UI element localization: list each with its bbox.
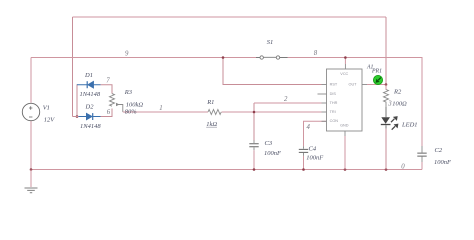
node junction LED ground bbox=[385, 168, 388, 171]
pin stub GND bbox=[344, 131, 346, 136]
wire V1 bottom lead bbox=[30, 121, 32, 170]
IC 555 timer box bbox=[327, 69, 363, 131]
node junction net9/RST bbox=[222, 56, 225, 59]
wire LED to ground rail bbox=[385, 125, 387, 129]
svg-text:C2: C2 bbox=[435, 147, 443, 154]
LED LED1 bbox=[385, 107, 387, 117]
svg-text:OUT: OUT bbox=[348, 83, 357, 87]
svg-text:R3: R3 bbox=[124, 89, 133, 96]
node junction IC GND bbox=[344, 168, 347, 171]
svg-text:100nF: 100nF bbox=[264, 150, 282, 157]
wire THR horizontal bbox=[254, 102, 322, 104]
svg-text:100kΩ: 100kΩ bbox=[126, 102, 144, 109]
svg-text:4: 4 bbox=[307, 124, 311, 131]
svg-text:100nF: 100nF bbox=[434, 159, 452, 166]
wire net 1 wiper to R1 bbox=[123, 111, 208, 113]
diode D2 1N4148 bbox=[79, 113, 101, 120]
svg-text:0: 0 bbox=[401, 164, 405, 171]
potentiometer R3 zigzag bbox=[110, 94, 115, 107]
probe PR1 bbox=[373, 75, 382, 84]
wire bottom ground rail bbox=[31, 169, 422, 171]
wire VCC stub bbox=[344, 58, 346, 65]
node junction OUT bbox=[385, 83, 388, 86]
wire net 9 drop to RST bbox=[223, 58, 322, 85]
LED arrows bbox=[391, 119, 394, 122]
pin stub VCC bbox=[344, 64, 346, 69]
svg-text:100nF: 100nF bbox=[306, 155, 324, 162]
svg-text:100Ω: 100Ω bbox=[392, 101, 407, 108]
potentiometer R3 wiper arrow bbox=[116, 105, 123, 113]
svg-text:2: 2 bbox=[284, 96, 288, 103]
pin stub DIS unconnected bbox=[318, 93, 327, 95]
switch S1 bbox=[256, 56, 288, 58]
ground symbol bbox=[30, 170, 32, 188]
svg-text:THR: THR bbox=[330, 101, 338, 105]
wire net 2 vertical THR/C3 bbox=[253, 103, 255, 141]
wire net 2 R1 to TRI junction bbox=[222, 111, 322, 113]
svg-text:C4: C4 bbox=[309, 146, 317, 153]
node junction net2 bbox=[253, 111, 256, 114]
svg-text:GND: GND bbox=[340, 124, 349, 128]
capacitor C3 bbox=[249, 144, 258, 147]
wire net 8 from S1 to C2 corner bbox=[288, 58, 422, 147]
pin stub CON bbox=[322, 120, 327, 122]
svg-text:R1: R1 bbox=[206, 99, 214, 106]
svg-text:V1: V1 bbox=[43, 105, 50, 112]
svg-text:7: 7 bbox=[106, 77, 110, 84]
node junction net8/VCC bbox=[344, 56, 347, 59]
svg-text:DIS: DIS bbox=[330, 92, 337, 96]
svg-text:CON: CON bbox=[330, 119, 339, 123]
wire OUT to node 3 bbox=[367, 84, 386, 86]
resistor R2 zigzag bbox=[384, 85, 389, 108]
wire vertical left branch down to diodes bbox=[72, 17, 74, 117]
capacitor C2 bbox=[417, 153, 426, 156]
pin stub THR bbox=[322, 102, 327, 104]
svg-text:1N4148: 1N4148 bbox=[80, 123, 101, 130]
svg-text:C3: C3 bbox=[265, 140, 273, 147]
svg-text:TRI: TRI bbox=[330, 110, 336, 114]
value R1 underline bbox=[206, 126, 217, 128]
svg-text:80%: 80% bbox=[125, 109, 138, 116]
pin stub RST bbox=[322, 84, 327, 86]
svg-text:1N4148: 1N4148 bbox=[80, 91, 101, 98]
voltage source V1 bbox=[22, 103, 39, 120]
svg-text:D1: D1 bbox=[84, 72, 93, 79]
wire D1 line to R3 top bbox=[77, 85, 113, 94]
svg-text:R2: R2 bbox=[393, 88, 402, 95]
svg-text:12V: 12V bbox=[44, 116, 56, 123]
wire net 9 horizontal from V1 to S1 bbox=[31, 57, 256, 59]
pin stub TRI bbox=[322, 111, 327, 113]
svg-text:LED1: LED1 bbox=[401, 121, 418, 128]
svg-text:PR1: PR1 bbox=[371, 69, 382, 75]
svg-text:S1: S1 bbox=[267, 39, 274, 46]
svg-text:1: 1 bbox=[159, 105, 162, 112]
node junction C3 ground bbox=[253, 168, 256, 171]
resistor R1 zigzag bbox=[208, 110, 221, 115]
svg-text:3: 3 bbox=[387, 101, 392, 108]
node junction diode left loop bbox=[76, 115, 79, 118]
svg-text:VCC: VCC bbox=[340, 72, 348, 76]
pin stub OUT bbox=[362, 84, 367, 86]
wire vertical right from top rail to OUT node bbox=[385, 17, 387, 85]
wire CON to C4 bbox=[304, 121, 327, 146]
svg-text:8: 8 bbox=[314, 50, 318, 57]
wire D2 line to R3 bottom bbox=[73, 109, 113, 117]
wire D1 D2 left loop bbox=[76, 85, 78, 117]
capacitor C4 bbox=[299, 149, 308, 152]
node junction C4 ground bbox=[302, 168, 305, 171]
svg-text:9: 9 bbox=[125, 50, 129, 57]
svg-text:RST: RST bbox=[330, 83, 338, 87]
node junction V1/ground bbox=[30, 168, 33, 171]
svg-text:D2: D2 bbox=[85, 103, 95, 110]
svg-text:6: 6 bbox=[107, 109, 111, 116]
diode D1 1N4148 bbox=[77, 81, 101, 88]
wire V1 top lead bbox=[30, 58, 32, 103]
wire top rail from OUT node to diode branch bbox=[73, 16, 387, 18]
svg-text:1kΩ: 1kΩ bbox=[206, 121, 217, 128]
